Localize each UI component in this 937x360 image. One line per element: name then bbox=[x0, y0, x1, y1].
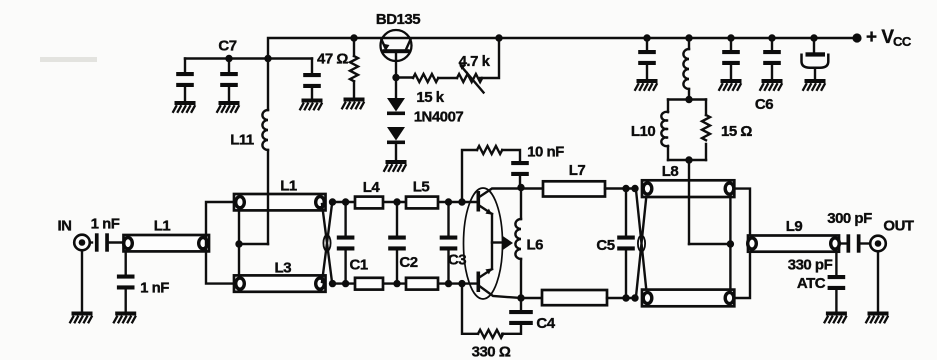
svg-text:C1: C1 bbox=[350, 257, 368, 274]
svg-text:300 pF: 300 pF bbox=[827, 210, 872, 227]
svg-text:L10: L10 bbox=[631, 123, 656, 140]
svg-text:330 Ω: 330 Ω bbox=[472, 344, 511, 360]
svg-text:L1: L1 bbox=[154, 218, 171, 235]
svg-text:L1: L1 bbox=[280, 178, 297, 195]
svg-text:OUT: OUT bbox=[883, 218, 914, 235]
svg-text:L9: L9 bbox=[786, 218, 803, 235]
svg-text:47 Ω: 47 Ω bbox=[317, 51, 348, 68]
svg-text:ATC: ATC bbox=[797, 275, 826, 292]
svg-text:1 nF: 1 nF bbox=[91, 216, 120, 233]
svg-text:C7: C7 bbox=[218, 38, 236, 55]
svg-text:L6: L6 bbox=[527, 237, 544, 254]
svg-text:L11: L11 bbox=[230, 132, 254, 149]
svg-text:L3: L3 bbox=[275, 260, 292, 277]
svg-text:C6: C6 bbox=[755, 96, 773, 113]
svg-text:1N4007: 1N4007 bbox=[414, 109, 464, 126]
svg-text:10 nF: 10 nF bbox=[527, 144, 564, 161]
svg-text:4.7 k: 4.7 k bbox=[459, 53, 491, 70]
svg-text:330 pF: 330 pF bbox=[788, 257, 833, 274]
svg-text:15 k: 15 k bbox=[416, 89, 444, 106]
svg-text:L5: L5 bbox=[413, 179, 430, 196]
svg-text:C2: C2 bbox=[399, 254, 417, 271]
svg-text:L7: L7 bbox=[569, 162, 586, 179]
svg-text:L8: L8 bbox=[662, 163, 679, 180]
svg-text:1 nF: 1 nF bbox=[140, 280, 169, 297]
svg-text:C4: C4 bbox=[536, 315, 555, 332]
svg-text:IN: IN bbox=[58, 218, 72, 235]
svg-text:15 Ω: 15 Ω bbox=[721, 123, 752, 140]
svg-text:+ V: + V bbox=[866, 27, 894, 48]
svg-text:L4: L4 bbox=[363, 179, 381, 196]
svg-text:C5: C5 bbox=[596, 237, 614, 254]
svg-text:C3: C3 bbox=[448, 252, 466, 269]
svg-text:BD135: BD135 bbox=[376, 11, 420, 28]
svg-text:CC: CC bbox=[893, 34, 912, 49]
